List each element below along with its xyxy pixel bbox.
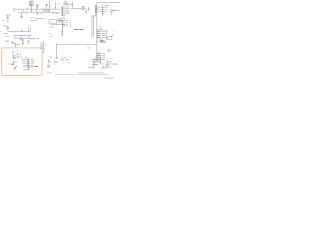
connector J4 [103, 5, 109, 17]
value label [4, 32, 8, 35]
capacitor C5 below W3 [20, 39, 22, 41]
diode ladder D3 [95, 6, 97, 13]
wire tap [25, 12, 27, 15]
capacitor C6 [111, 10, 121, 16]
stray dots [62, 61, 70, 64]
indicator lamp [14, 65, 18, 69]
crystal Y1 [22, 38, 24, 45]
wire [97, 7, 102, 9]
transistor Q1 [14, 57, 16, 59]
label text [31, 16, 34, 19]
highlight box (orange) [2, 48, 43, 76]
wire [35, 18, 45, 20]
connector J5 [97, 27, 107, 40]
node junction on bus A [13, 7, 15, 10]
wire tap [36, 9, 38, 12]
wire [20, 35, 22, 38]
net label text [31, 37, 36, 40]
wire [97, 9, 102, 11]
connector J3 [23, 59, 38, 71]
wire vertical spine [96, 3, 98, 61]
wire tap [45, 9, 47, 12]
pin ticks [44, 45, 45, 49]
net label text [6, 14, 11, 17]
wire stub V2 [49, 1, 51, 9]
resistor R3 [71, 6, 87, 10]
wire link [22, 9, 24, 12]
wire tap [42, 8, 44, 9]
ground GND4 [103, 66, 105, 68]
connector J2 [61, 20, 69, 33]
connector J6 [97, 50, 112, 62]
wire top right [97, 2, 120, 4]
wire rail [94, 4, 96, 16]
wire [28, 35, 30, 38]
label text [58, 21, 62, 24]
wire [91, 15, 97, 17]
wire bus pair Q [92, 16, 94, 38]
connector J1 [55, 6, 69, 18]
wire [51, 24, 66, 26]
wire [100, 67, 106, 69]
junction label [30, 34, 32, 37]
label text [58, 18, 63, 21]
resistor R2 between buses [48, 10, 49, 12]
capacitor C3 [7, 16, 9, 20]
value label [5, 35, 10, 38]
net label dark [74, 28, 78, 31]
wire X [55, 45, 57, 58]
connector J7 [88, 57, 103, 68]
label text [45, 45, 46, 46]
label text [40, 13, 42, 16]
capacitor C8 [88, 7, 90, 12]
wire [30, 19, 38, 21]
fuse F2 [97, 39, 107, 44]
net label row [61, 56, 70, 59]
stray mark [112, 34, 115, 36]
box U3 [108, 36, 112, 39]
label dark [11, 63, 13, 66]
label text [87, 46, 90, 49]
wire bus A [14, 8, 61, 10]
wire bus B [18, 11, 61, 13]
capacitor C1 top [36, 4, 38, 9]
title block text [104, 78, 114, 79]
label text [27, 40, 30, 43]
label text [27, 7, 30, 10]
wire terminal [13, 35, 15, 38]
pin name column [40, 43, 43, 50]
label text [109, 66, 111, 69]
wire stub V1 [46, 4, 48, 9]
label text [14, 51, 15, 54]
polarized cap C7 [50, 57, 59, 58]
ground GND7 [7, 20, 9, 23]
ground GND3 [85, 9, 87, 13]
stray marks [54, 70, 63, 72]
wire [7, 19, 9, 21]
wire link [13, 9, 15, 12]
frame line upper [78, 72, 105, 74]
label text [110, 57, 113, 60]
label text [52, 12, 55, 15]
wire [20, 53, 22, 58]
wire [21, 57, 23, 64]
wire stub V3 [55, 2, 59, 9]
value label [3, 19, 5, 22]
wire vertical at box corner [42, 42, 44, 53]
inductor L1 [47, 59, 58, 67]
ground GND5 [106, 67, 108, 69]
wire W1 [8, 26, 31, 31]
label text [58, 19, 64, 22]
net label text [36, 37, 39, 40]
wire [50, 26, 54, 28]
box U2 [49, 20, 57, 23]
wire [97, 11, 102, 13]
wire W2 [14, 34, 31, 36]
label text [16, 43, 19, 46]
capacitor C2 below bus [37, 12, 39, 15]
ground GND6 [15, 46, 17, 47]
ground GND2 [61, 34, 63, 37]
label text [0, 30, 2, 33]
LED D2 [13, 61, 18, 64]
wire bottom right [100, 59, 118, 67]
resistor R1 top [29, 1, 33, 12]
resistor R4 between buses [44, 10, 45, 12]
wire W3 [14, 37, 31, 39]
frame line lower [55, 74, 108, 76]
wire [29, 28, 31, 32]
wire dash [47, 72, 52, 74]
ground GND1 [20, 12, 23, 18]
net label dark [79, 28, 83, 31]
stray text marks [49, 33, 54, 56]
fuse F1 [64, 1, 73, 8]
label text S [5, 40, 9, 43]
wire Z [56, 44, 97, 45]
wire [8, 63, 15, 65]
wire inside box [13, 50, 18, 59]
wire [69, 22, 71, 28]
diode D1 [12, 41, 16, 45]
net label row [61, 58, 69, 61]
capacitor C4 [7, 26, 9, 31]
net label text [3, 25, 7, 28]
label text inside box [17, 53, 19, 56]
